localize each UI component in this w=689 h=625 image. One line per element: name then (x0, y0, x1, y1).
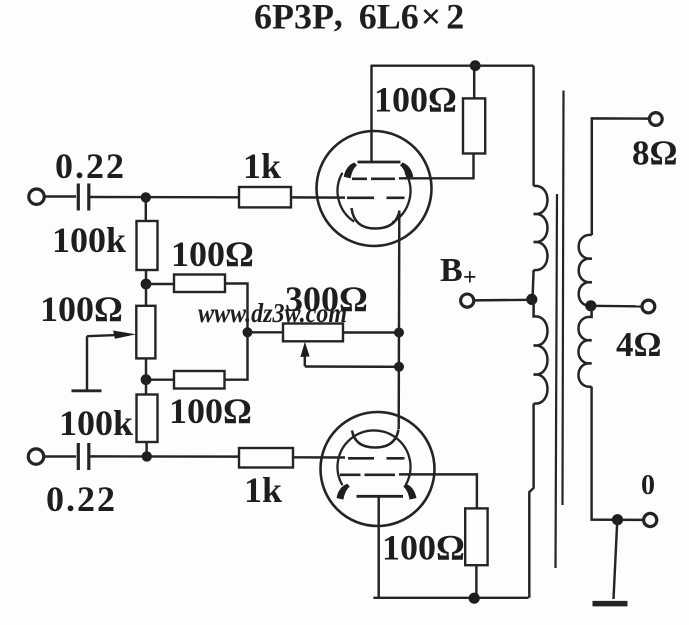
svg-text:0.22: 0.22 (55, 146, 126, 186)
svg-text:+: + (463, 265, 477, 291)
V2 beam plate left (337, 484, 350, 500)
V1 screen grid (dashed) (352, 177, 395, 180)
RP2 wiper arrow (300, 342, 309, 367)
node B+ tap (526, 294, 537, 305)
wire RP1 bottom to node D (145, 358, 147, 379)
V2 cathode (352, 430, 399, 448)
svg-text:1k: 1k (244, 470, 282, 510)
wire bottom rail (373, 597, 528, 599)
V2 inner shield arc (337, 430, 410, 485)
wire V1 screen to R7 (399, 154, 474, 179)
svg-text:6P3P,6L6×2: 6P3P,6L6×2 (254, 0, 464, 37)
wire node B to RP1 top (145, 284, 147, 306)
node D junction (141, 374, 152, 385)
tube V2 envelope (321, 412, 435, 526)
8ohm terminal (649, 113, 662, 126)
tube V1 envelope (317, 131, 432, 246)
wire V1 plate lead (370, 66, 372, 162)
wire R3 right down to R4 (225, 284, 248, 380)
V1 control grid (dashed) (347, 196, 405, 199)
resistor R1 100k (upper) (137, 221, 158, 270)
svg-text:100Ω: 100Ω (171, 234, 254, 274)
input terminal J1 (upper) (29, 189, 44, 204)
wire R6 to V2 grid (293, 456, 345, 459)
resistor R8 100ohm (lower screen) (465, 508, 487, 565)
wire top rail (371, 64, 534, 66)
svg-text:B: B (440, 252, 463, 289)
potentiometer RP2 300ohm (283, 324, 343, 342)
resistor R5 100k (lower) (137, 395, 158, 443)
0 terminal (644, 513, 657, 526)
resistor R2 1k (upper) (239, 187, 291, 207)
wire secondary bottom to 0 terminal (592, 387, 644, 520)
wire R1 to node B (145, 270, 147, 284)
V2 control grid (dashed) (348, 457, 405, 460)
wire J1 to C1 (45, 195, 76, 197)
wire V2 plate lead (377, 496, 379, 598)
node E junction (142, 451, 152, 461)
wire node D to R5 (145, 380, 147, 395)
node H junction (470, 60, 481, 71)
svg-text:100Ω: 100Ω (169, 391, 252, 431)
node J junction (0 tap) (612, 514, 623, 525)
resistor R7 100ohm (upper screen) (463, 98, 485, 153)
V1 cathode (352, 208, 400, 229)
svg-text:0.22: 0.22 (46, 479, 117, 519)
node C junction (coupling mid) (243, 327, 253, 337)
capacitor C2 (78, 443, 89, 470)
wire node J to ground (614, 520, 618, 599)
transformer T1 secondary lower winding (578, 306, 591, 387)
svg-text:300Ω: 300Ω (285, 279, 368, 319)
V1 plate (358, 161, 401, 164)
transformer T1 secondary upper winding (579, 235, 592, 306)
V2 beam plate right (403, 484, 416, 500)
resistor R4 100ohm (lower coupling) (174, 371, 225, 389)
svg-text:1k: 1k (243, 146, 281, 186)
V2 screen grid (dashed) (340, 473, 395, 476)
transformer T1 core (556, 194, 558, 568)
wire RP2 to node F (343, 331, 399, 333)
wire wiper to node G (305, 365, 399, 368)
wire node A to R1 (145, 197, 147, 221)
svg-text:100Ω: 100Ω (382, 528, 465, 568)
svg-text:100k: 100k (59, 403, 133, 443)
node B junction (141, 279, 152, 290)
wire primary top (532, 66, 534, 186)
wire B+ terminal to tap (474, 299, 532, 302)
wire C1 to R2 (90, 196, 240, 199)
node F junction (394, 328, 404, 338)
RP1 wiper arrow (87, 331, 136, 339)
wire V2 screen to R8 (399, 474, 477, 508)
svg-text:0: 0 (641, 470, 655, 501)
V1 beam plate left (344, 163, 357, 179)
node G junction (394, 362, 404, 372)
wire primary to B+ tap (533, 270, 534, 299)
wire R2 to V1 grid (291, 196, 345, 199)
wire primary bottom (529, 404, 533, 598)
wire tap to 4ohm terminal (591, 305, 642, 308)
node A junction (141, 192, 151, 202)
B+ terminal (461, 294, 474, 307)
wire R4 to node D (146, 378, 174, 380)
capacitor C1 (78, 184, 89, 211)
svg-text:8Ω: 8Ω (632, 134, 678, 173)
wire node B to R3 (146, 283, 174, 285)
svg-text:100k: 100k (52, 220, 126, 260)
wire node C to RP2 (248, 331, 284, 333)
ground G1 (72, 389, 102, 392)
transformer T1 primary upper winding (534, 186, 548, 270)
wire R7 top to node H (473, 66, 475, 99)
wire cathode column V1 to V2 (397, 212, 400, 429)
wire wiper to ground (86, 336, 88, 389)
node 4ohm tap (585, 300, 596, 311)
V2 plate (357, 495, 404, 498)
wire J2 to C2 (44, 455, 76, 457)
resistor R6 1k (lower) (239, 448, 293, 468)
node I junction (bottom) (469, 593, 480, 604)
wire 8ohm terminal to secondary (592, 118, 650, 235)
svg-text:100Ω: 100Ω (40, 289, 123, 329)
input terminal J2 (lower) (28, 449, 43, 464)
potentiometer RP1 100ohm (136, 306, 155, 359)
V1 beam plate right (400, 163, 413, 179)
svg-text:100Ω: 100Ω (374, 80, 457, 120)
wire R5 to node E (145, 442, 147, 456)
wire R8 bottom (475, 565, 477, 598)
resistor R3 100ohm (upper coupling) (174, 275, 225, 293)
wire C2 to R6 (90, 455, 239, 458)
transformer T1 primary lower winding (534, 299, 548, 403)
svg-text:4Ω: 4Ω (616, 325, 662, 364)
4ohm terminal (642, 300, 655, 313)
ground G2 (593, 601, 628, 607)
